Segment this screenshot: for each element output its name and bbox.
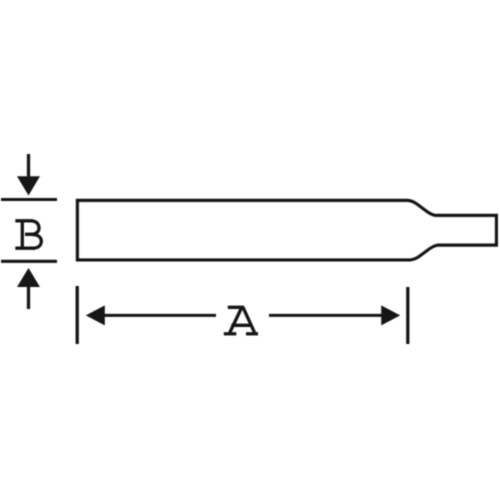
dimension B down arrow (above) — [17, 154, 40, 196]
file body outline (rectangular blank with tang) — [78, 201, 497, 260]
dimension B top tick line — [1, 198, 57, 201]
label B (courier-style drawn glyph) — [15, 221, 41, 248]
dimension B up arrow (below) — [17, 268, 40, 309]
dimension B bottom tick line — [1, 260, 57, 263]
dimension A right extension line — [406, 287, 409, 344]
dimension A arrow line with left and right arrowheads — [86, 305, 400, 325]
dimension A left extension line — [76, 286, 79, 344]
label A (courier-style drawn glyph) — [224, 307, 258, 334]
